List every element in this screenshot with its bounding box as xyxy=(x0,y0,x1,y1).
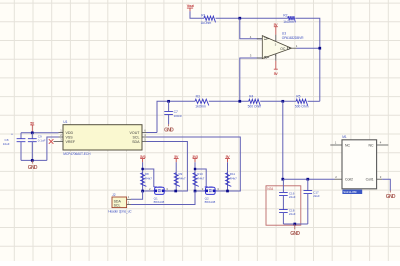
pin 1 output stub and number xyxy=(292,47,297,49)
svg-text:100nF: 100nF xyxy=(174,114,183,118)
wire cap bottoms xyxy=(283,223,307,225)
svg-text:S1211-05F: S1211-05F xyxy=(343,190,357,194)
svg-text:BSS138: BSS138 xyxy=(205,200,216,204)
resistor R10 xyxy=(193,173,199,187)
svg-text:1kOhm: 1kOhm xyxy=(201,21,212,25)
svg-text:0.1uF: 0.1uF xyxy=(38,138,46,142)
ground below C8/C9 xyxy=(31,160,33,163)
wire SCL rail xyxy=(147,137,241,191)
red group box N34 xyxy=(266,186,301,225)
node ground tap xyxy=(31,159,34,162)
svg-text:VSS: VSS xyxy=(66,135,74,139)
node coil branch xyxy=(281,100,284,103)
wire R9 pull-up xyxy=(175,162,177,191)
wire drain side Q2 to R11 xyxy=(216,190,228,192)
svg-text:NC: NC xyxy=(369,143,375,147)
node 5V tap xyxy=(31,131,34,134)
svg-text:R4k7: R4k7 xyxy=(230,177,237,181)
svg-text:OPA1632DBVR: OPA1632DBVR xyxy=(282,36,304,40)
wire op-amp inv input (pin 3) xyxy=(240,58,262,101)
J2 pin 2 stub xyxy=(127,204,131,206)
node inv-input tap xyxy=(238,100,241,103)
svg-text:VDD: VDD xyxy=(66,131,74,135)
M1 pin 4 NC xyxy=(377,144,389,146)
power 5V at op-amp top (pin 5) xyxy=(275,35,277,42)
capacitor C8 (polarized) xyxy=(20,133,22,139)
svg-text:500 Ohm: 500 Ohm xyxy=(248,105,262,109)
M1 pin 1 NC xyxy=(330,144,342,146)
power 5V above C9 xyxy=(30,125,34,133)
wire op-amp output to feedback node xyxy=(297,47,320,49)
header J2 body xyxy=(112,197,127,208)
ground below caps xyxy=(294,224,296,229)
wire coil branch down xyxy=(282,101,284,179)
node C16 branch xyxy=(281,178,284,181)
wire gate branch of R8 cell xyxy=(143,169,154,187)
no-ERC cross on VREF xyxy=(49,139,54,144)
svg-text:GND: GND xyxy=(386,194,396,200)
J2 pin 1 stub xyxy=(127,198,131,200)
wire J2 SCL to level shifter xyxy=(131,191,195,205)
U1 pin 3 VREF stub xyxy=(54,141,64,143)
svg-text:M1: M1 xyxy=(342,135,347,139)
capacitor C17 xyxy=(307,179,309,190)
node C7 tap xyxy=(167,100,170,103)
pin 3 stub and number xyxy=(257,57,263,59)
wire gate branch of R10 cell xyxy=(195,169,206,187)
svg-text:R4: R4 xyxy=(249,94,253,98)
svg-text:R5: R5 xyxy=(296,94,300,98)
svg-text:OC: OC xyxy=(280,47,286,51)
wire R5 to output node riser xyxy=(308,100,320,102)
svg-text:R4k7: R4k7 xyxy=(197,177,204,181)
wire R8 pull-up xyxy=(142,162,144,191)
capacitor C18 xyxy=(282,195,284,209)
power -5V at op-amp bottom (pin 2) xyxy=(275,54,277,61)
svg-text:R11: R11 xyxy=(230,172,236,176)
svg-text:R2: R2 xyxy=(283,13,287,17)
wire M1 pin3 to ground xyxy=(382,179,390,190)
wire SDA rail xyxy=(147,142,188,192)
resistor R4 xyxy=(249,99,261,105)
svg-text:GND: GND xyxy=(28,165,38,171)
wire 5V rail to VDD xyxy=(21,132,59,134)
wire source row Q2 xyxy=(195,190,205,192)
svg-text:Coil1: Coil1 xyxy=(366,178,374,182)
svg-text:J2: J2 xyxy=(112,193,116,197)
svg-text:22uF: 22uF xyxy=(289,195,296,199)
svg-text:R9: R9 xyxy=(179,172,183,176)
svg-text:500 Ohm: 500 Ohm xyxy=(295,105,309,109)
U1 pin 6 VOUT stub xyxy=(142,132,147,134)
svg-text:Header 2pins_uC: Header 2pins_uC xyxy=(108,210,132,214)
svg-text:SCL: SCL xyxy=(114,204,121,208)
svg-text:R10: R10 xyxy=(197,172,203,176)
pin 4 stub and number xyxy=(257,38,263,40)
wire R4 to R5 xyxy=(260,100,296,102)
node ground tap bottom xyxy=(293,223,296,226)
op-amp U3 OPA1632DBVR xyxy=(262,36,291,59)
resistor R11 xyxy=(226,173,232,187)
wire op-amp noninv input (pin 4) xyxy=(240,18,262,39)
svg-text:BSS138: BSS138 xyxy=(154,200,165,204)
node C17 branch xyxy=(306,178,309,181)
capacitor C16 xyxy=(282,179,284,192)
svg-text:1kOhm: 1kOhm xyxy=(195,105,206,109)
wire VSS to ground rail xyxy=(47,137,59,160)
wire VOUT to riser xyxy=(147,132,158,134)
U1 pin 2 VSS stub xyxy=(59,136,64,138)
M1 selected part label xyxy=(342,190,362,194)
svg-text:U3: U3 xyxy=(282,31,286,35)
resistor R3 xyxy=(195,99,209,105)
svg-text:U1: U1 xyxy=(63,120,67,124)
svg-text:+: + xyxy=(11,132,13,136)
svg-text:1kOhm: 1kOhm xyxy=(283,20,294,24)
svg-text:R4k7: R4k7 xyxy=(179,177,186,181)
svg-text:VOUT: VOUT xyxy=(130,131,141,135)
svg-text:SDA: SDA xyxy=(132,140,140,144)
resistor R8 xyxy=(141,173,147,187)
wire ground rail xyxy=(21,159,47,161)
component M1 body xyxy=(342,140,377,189)
resistor R9 xyxy=(174,173,180,187)
wire R10 pull-up xyxy=(194,162,196,191)
wire R1 to R2 xyxy=(216,17,288,19)
svg-text:SDA: SDA xyxy=(114,199,122,203)
node output junction xyxy=(318,47,321,50)
wire R3 to R4 xyxy=(209,100,249,102)
M1 pin 3 Coil1 xyxy=(377,178,383,180)
node R10/source xyxy=(194,190,197,193)
svg-text:MCP4706A0T-ECH: MCP4706A0T-ECH xyxy=(63,152,91,156)
U1 pin 1 VDD stub xyxy=(59,132,64,134)
capacitor C7 xyxy=(168,101,170,111)
wire source row Q1 xyxy=(143,190,155,192)
svg-text:GND: GND xyxy=(164,128,174,134)
ground at M1 pin3 xyxy=(389,191,391,193)
svg-text:N34: N34 xyxy=(267,187,273,191)
svg-text:NC: NC xyxy=(345,143,351,147)
U1 pin 4 SCL stub xyxy=(142,136,147,138)
wire drain side Q1 to R9 xyxy=(165,190,188,192)
svg-text:Coil2: Coil2 xyxy=(345,178,353,182)
wire J2 SDA to level shifter xyxy=(131,191,143,199)
wire from Vout port to R1 xyxy=(190,11,204,18)
resistor R5 xyxy=(296,99,308,105)
transistor Q2 BSS138 xyxy=(204,187,216,195)
capacitor C9 xyxy=(31,133,33,139)
wire R11 pull-up xyxy=(227,162,229,191)
node gate tie xyxy=(141,168,143,170)
wire VOUT riser to divider row xyxy=(157,101,195,132)
U1 pin 5 SDA stub xyxy=(142,141,147,143)
M1 pin 2 Coil2 xyxy=(335,178,343,180)
svg-text:R3: R3 xyxy=(196,94,200,98)
resistor R1 xyxy=(204,16,216,22)
svg-text:22uF: 22uF xyxy=(313,194,320,198)
DAC U1 MCP4706 body xyxy=(63,125,142,150)
resistor R2 xyxy=(288,16,296,22)
svg-text:10uF: 10uF xyxy=(3,142,10,146)
svg-text:Vout: Vout xyxy=(187,3,195,8)
svg-text:R1: R1 xyxy=(201,13,205,17)
node R8/source xyxy=(141,190,144,193)
svg-text:VREF: VREF xyxy=(66,140,76,144)
svg-text:R4k7: R4k7 xyxy=(145,177,152,181)
wire cap row to M1 coil2 xyxy=(283,178,335,180)
svg-text:GND: GND xyxy=(290,231,300,237)
ground below C7 xyxy=(168,124,170,126)
node R11/drain xyxy=(226,190,229,193)
wire R2 right side down to output node xyxy=(295,18,320,101)
node gate tie xyxy=(194,168,196,170)
transistor Q1 BSS138 xyxy=(153,187,165,195)
node junction at R1/R2 and op-amp input xyxy=(238,17,241,20)
svg-text:SCL: SCL xyxy=(133,135,140,139)
node R9/drain xyxy=(174,190,177,193)
svg-text:22uF: 22uF xyxy=(289,212,296,216)
svg-text:R8: R8 xyxy=(145,172,149,176)
